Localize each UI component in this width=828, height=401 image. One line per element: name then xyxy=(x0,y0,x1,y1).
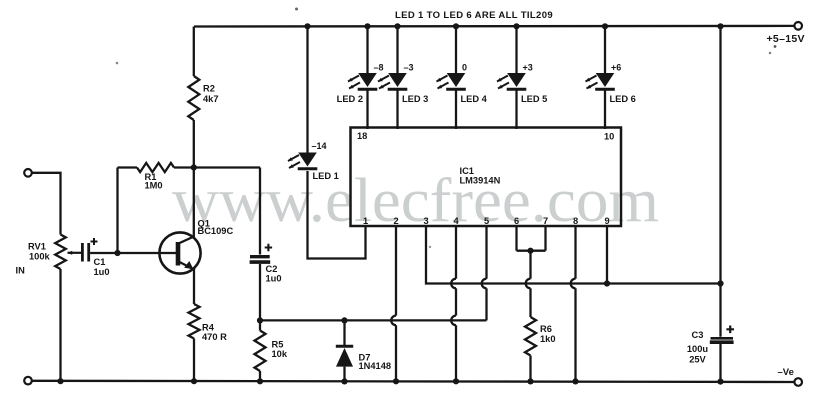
Q1 emitter arrow xyxy=(184,261,193,269)
svg-text:BC109C: BC109C xyxy=(198,226,234,236)
svg-text:R4: R4 xyxy=(202,323,215,333)
junction D7 bottom rail xyxy=(341,378,347,384)
terminal input bottom xyxy=(24,377,32,385)
wire R5 to bottom rail xyxy=(259,371,261,381)
LED LED 3 xyxy=(388,73,407,87)
C2 plus sign xyxy=(265,244,272,251)
transistor Q1 body xyxy=(159,232,200,273)
svg-text:9: 9 xyxy=(605,216,610,226)
junction pin6/7 tie xyxy=(527,248,533,254)
svg-text:100u: 100u xyxy=(687,344,709,354)
wire top supply rail xyxy=(194,25,794,28)
svg-text:LED 1: LED 1 xyxy=(313,171,339,181)
wire pin9 to V+ line xyxy=(606,226,608,284)
Q1 base bar xyxy=(176,242,181,266)
wire pin4 to bottom rail xyxy=(455,226,457,279)
resistor R2 xyxy=(188,76,199,120)
svg-text:R2: R2 xyxy=(203,84,215,94)
svg-text:+3: +3 xyxy=(523,62,533,72)
wire D7 to bottom rail xyxy=(343,367,345,382)
wire LED 2 to IC top xyxy=(366,89,368,129)
svg-text:18: 18 xyxy=(357,131,367,141)
resistor R4 xyxy=(189,304,200,339)
wire LED 3 to IC top xyxy=(396,89,398,129)
svg-text:+5–15V: +5–15V xyxy=(767,33,805,45)
junction collector node xyxy=(191,164,197,170)
svg-text:8: 8 xyxy=(573,216,578,226)
svg-text:LED 6: LED 6 xyxy=(610,94,636,104)
resistor R6 xyxy=(525,317,536,356)
svg-text:2: 2 xyxy=(394,216,399,226)
terminal -Ve xyxy=(794,378,802,386)
svg-text:LED 4: LED 4 xyxy=(461,94,488,104)
svg-text:LED 1 TO LED 6 ARE ALL TIL209: LED 1 TO LED 6 ARE ALL TIL209 xyxy=(395,10,553,21)
junction C3 bottom rail xyxy=(717,379,723,385)
junction pin8 bottom rail xyxy=(572,378,578,384)
wire pin6 down xyxy=(515,226,517,251)
svg-text:RV1: RV1 xyxy=(28,242,46,252)
junction V+ line right xyxy=(717,280,723,286)
junction top rail x=307.5 xyxy=(304,23,310,29)
junction top rail x=720.5 xyxy=(717,23,723,29)
svg-text:100k: 100k xyxy=(29,252,51,262)
LED D1 (LED 1) xyxy=(298,153,317,167)
wire LED 4 to IC top xyxy=(455,89,457,129)
wire bottom rail (-Ve) xyxy=(32,381,795,382)
resistor R1 xyxy=(137,163,174,172)
svg-text:LED 2: LED 2 xyxy=(337,94,363,104)
junction RV1 bottom rail xyxy=(57,378,63,384)
junction R4 bottom rail xyxy=(191,378,197,384)
junction top rail x=605.0 xyxy=(602,23,608,29)
diode D7 xyxy=(336,345,353,348)
wire signal node to R5 xyxy=(259,320,261,330)
capacitor C1 xyxy=(81,243,84,262)
wire pin1 to LED1 cathode xyxy=(308,171,366,259)
Q1 emitter xyxy=(179,262,195,305)
wire collector node to C2 xyxy=(259,168,261,255)
junction top rail x=456 xyxy=(453,23,459,29)
wire LED 5 to IC top xyxy=(515,89,517,129)
svg-text:1u0: 1u0 xyxy=(94,267,110,277)
wire rail to LED1 xyxy=(306,26,308,152)
svg-text:LED 3: LED 3 xyxy=(402,94,428,104)
svg-text:R6: R6 xyxy=(540,324,552,334)
svg-text:0: 0 xyxy=(462,62,467,72)
wire R1 to collector node xyxy=(174,166,260,168)
wire C1 to Q1 base xyxy=(90,252,176,254)
svg-text:–8: –8 xyxy=(374,62,384,72)
svg-text:LED 5: LED 5 xyxy=(521,94,547,104)
potentiometer RV1 xyxy=(55,235,66,270)
wire C3 to bottom rail xyxy=(719,344,721,382)
junction top rail x=367.5 xyxy=(364,23,370,29)
wire pin2 to bottom rail xyxy=(395,226,397,316)
svg-text:IC1: IC1 xyxy=(460,166,474,176)
wire pin5 to signal line xyxy=(485,226,487,279)
svg-text:470 R: 470 R xyxy=(202,332,227,342)
wire input top to RV1 xyxy=(32,173,61,235)
junction top rail x=516.5 xyxy=(513,23,519,29)
LED LED 2 xyxy=(358,73,377,87)
svg-text:–3: –3 xyxy=(404,62,414,72)
svg-text:C2: C2 xyxy=(266,264,278,274)
wire pin3 to V+ line xyxy=(426,226,721,284)
capacitor C2 xyxy=(250,255,270,258)
wire R2 to collector junction xyxy=(193,120,195,168)
svg-text:1: 1 xyxy=(363,216,368,226)
wire rail to LED 2 xyxy=(366,26,368,73)
wire R1 left lead down to base xyxy=(116,168,118,254)
svg-text:3: 3 xyxy=(424,216,429,226)
wire signal to D7 xyxy=(343,320,345,345)
svg-text:R5: R5 xyxy=(272,339,284,349)
svg-text:1M0: 1M0 xyxy=(145,181,163,191)
junction R5 bottom rail xyxy=(257,378,263,384)
terminal +5-15V xyxy=(794,22,802,30)
svg-text:LM3914N: LM3914N xyxy=(460,176,501,186)
junction signal node xyxy=(257,317,263,323)
junction pin4 bottom rail xyxy=(453,378,459,384)
svg-text:1k0: 1k0 xyxy=(540,334,556,344)
wire signal line to pin5 xyxy=(260,319,487,321)
junction pin2 bottom rail xyxy=(393,378,399,384)
wire rail to R2 xyxy=(193,27,195,77)
svg-text:C1: C1 xyxy=(94,257,106,267)
svg-text:–14: –14 xyxy=(312,141,327,151)
wire collector xyxy=(179,168,194,244)
IC U1 LM3914N box xyxy=(351,128,622,227)
C1 plus sign xyxy=(91,238,98,245)
LED LED 6 xyxy=(596,73,615,87)
speck xyxy=(774,45,777,48)
svg-text:IN: IN xyxy=(16,265,26,275)
junction top rail x=397.5 xyxy=(394,23,400,29)
wire rail to LED 6 xyxy=(604,26,606,73)
C3 plus sign xyxy=(726,326,734,334)
svg-text:+6: +6 xyxy=(611,62,621,72)
wire R4 to bottom rail xyxy=(193,339,195,382)
wire rail to LED 3 xyxy=(396,26,398,73)
svg-text:5: 5 xyxy=(484,216,489,226)
wire C2 to signal node xyxy=(259,264,261,321)
wire LED 6 to IC top xyxy=(604,89,606,129)
wire rail to LED 4 xyxy=(455,26,457,73)
wire tie to R6 xyxy=(529,251,531,279)
wire rail to LED 5 xyxy=(515,26,517,73)
svg-text:7: 7 xyxy=(543,216,548,226)
svg-text:4k7: 4k7 xyxy=(203,94,219,104)
wire pin6-pin7 tie xyxy=(517,250,546,252)
wire V+ rail down right column xyxy=(719,26,721,337)
svg-text:10k: 10k xyxy=(272,349,288,359)
terminal input top xyxy=(24,169,32,177)
junction D7 top xyxy=(341,317,347,323)
svg-text:C3: C3 xyxy=(692,330,704,340)
svg-text:1N4148: 1N4148 xyxy=(359,361,392,371)
LED LED 4 xyxy=(447,73,466,87)
capacitor C3 xyxy=(711,337,734,340)
LED LED 5 xyxy=(507,73,526,87)
svg-text:1u0: 1u0 xyxy=(266,273,282,283)
wire pin8 to bottom rail xyxy=(574,226,576,279)
junction base node xyxy=(114,250,120,256)
svg-text:–Ve: –Ve xyxy=(778,367,794,378)
resistor R5 xyxy=(255,331,266,372)
svg-text:10: 10 xyxy=(604,132,614,142)
svg-text:6: 6 xyxy=(514,216,519,226)
wire to R1 xyxy=(118,166,138,168)
wire RV1 to bottom rail xyxy=(59,269,61,381)
RV1 wiper arrow xyxy=(68,252,82,254)
junction R6 bottom rail xyxy=(527,378,533,384)
wire pin7 down xyxy=(544,226,546,251)
junction pin9 on V+ line xyxy=(604,280,610,286)
svg-text:25V: 25V xyxy=(689,354,706,364)
svg-text:4: 4 xyxy=(454,216,460,226)
wire R6 to bottom rail xyxy=(529,356,531,382)
